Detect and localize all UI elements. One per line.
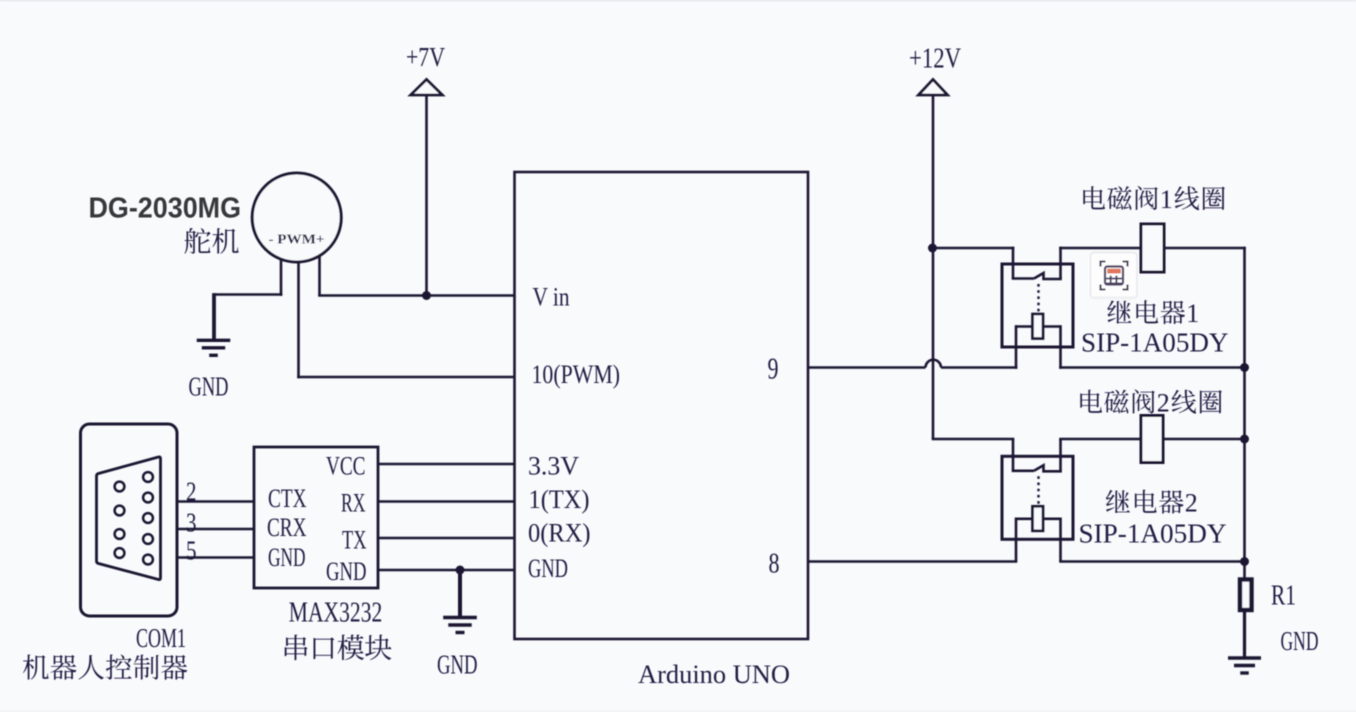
wire +12V tap to K1 switch [932,247,1015,250]
relay K2 switch blade [1034,465,1062,471]
svg-text:CRX: CRX [267,513,307,542]
svg-text:3: 3 [186,508,197,538]
svg-text:1: 1 [1186,299,1199,328]
label 继电器2 (relay 2) [1106,489,1198,518]
relay K2 switch left terminal [1012,439,1015,471]
svg-text:GND: GND [189,372,229,402]
svg-text:2: 2 [1157,389,1170,418]
connector J1 pin holes [115,472,153,564]
svg-text:VCC: VCC [326,452,366,481]
module U2 MAX3232 box [254,447,378,588]
wire VCC to 3.3V [378,463,515,466]
label 机器人控制器 (robot controller) [23,654,187,679]
valve coil 2 rectangle [1141,416,1163,463]
wire servo minus to ground [213,293,283,296]
wire +12V vertical rail [932,95,935,439]
svg-text:GND: GND [1281,626,1319,656]
relay K1 switch left contact [1012,277,1034,280]
svg-text:TX: TX [342,526,367,555]
svg-text:V in: V in [533,283,570,312]
svg-text:GND: GND [437,650,478,680]
wire valve coil 1 to right rail [1163,247,1246,250]
relay K1 coil right lead [1043,325,1061,328]
relay K2 coil- terminal [1015,518,1018,562]
relay K1 box [1002,264,1073,347]
svg-text:R1: R1 [1271,581,1296,612]
valve coil 1 rectangle [1141,224,1164,272]
node right rail junction 2 [1240,435,1249,444]
node right rail junction 1 [1240,363,1249,372]
label 电磁阀1线圈 (solenoid valve 1 coil) [1083,185,1225,214]
label 继电器1 (relay 1) [1107,299,1199,328]
top edge artifact line [0,0,1356,2]
svg-text:1(TX): 1(TX) [529,485,590,514]
wire ground drop (module) [458,570,462,616]
svg-text:1: 1 [1160,185,1173,214]
wire Vin net horizontal [318,294,515,297]
servo M1 DG-2030MG body circle [252,173,341,262]
svg-text:+7V: +7V [406,42,445,72]
wire PWM to Arduino 10(PWM) [297,376,515,379]
wire DB9 pin3 to CRX [177,528,255,531]
wire TX to 0(RX) [378,537,515,540]
relay K2 box [1002,456,1073,539]
svg-text:- PWM+: - PWM+ [269,232,325,247]
wire DB9 pin2 to CTX [177,500,255,503]
label 电磁阀2线圈 (solenoid valve 2 coil) [1080,389,1222,418]
svg-text:3.3V: 3.3V [528,452,579,481]
wire hop over +12V line [926,360,942,368]
power +12V arrow symbol [919,80,948,96]
svg-text:2: 2 [1185,489,1198,518]
relay K1 switch left terminal [1012,247,1015,279]
relay K1 switch right terminal [1059,247,1062,279]
wire RX to 1(TX) [378,500,515,503]
svg-text:GND: GND [326,557,367,586]
ground symbol (module) [443,618,477,633]
wire right rail vertical [1243,247,1246,581]
relay K1 coil+ terminal [1059,325,1062,369]
ground symbol (servo) [197,340,231,355]
wire servo minus lead [280,259,283,296]
wire pin9 to relay K1 [807,366,926,369]
svg-text:RX: RX [341,489,366,518]
node GND junction dot [456,566,465,575]
bottom edge artifact line [0,710,1356,712]
wire +12V corner to K2 switch [933,438,1014,439]
wire DB9 pin5 to GND [177,556,255,559]
relay K2 switch left contact [1012,469,1034,472]
wire R1 to ground [1243,610,1246,657]
relay K1 coil- terminal [1015,325,1018,369]
relay K1 coil rectangle [1033,314,1044,339]
power +7V arrow symbol [411,80,443,96]
label 串口模块 (serial module) [285,635,392,661]
relay K1 switch blade [1034,273,1062,279]
svg-text:CTX: CTX [268,484,307,513]
relay K1 actuator dashed link [1037,284,1039,312]
connector J1 DB9 outer body [81,424,178,616]
svg-text:SIP-1A05DY: SIP-1A05DY [1081,328,1229,358]
wire K2 switch to valve coil 2 [1059,438,1142,441]
label 舵机 (servo) [184,228,238,254]
wire +7V vertical to Vin node [425,95,428,296]
relay K2 coil+ terminal [1059,518,1062,562]
relay K2 coil right lead [1043,517,1061,520]
node right rail junction 3 [1240,557,1249,566]
svg-text:SIP-1A05DY: SIP-1A05DY [1079,519,1227,549]
relay K2 actuator dashed link [1037,476,1039,504]
svg-text:Arduino UNO: Arduino UNO [638,660,790,689]
relay K2 coil rectangle [1033,506,1044,531]
screenshot tool icon card [1091,253,1138,300]
connector J1 D-shell [97,457,161,580]
resistor R1 [1240,580,1252,611]
relay K1 coil left lead [1016,325,1033,328]
ground symbol (right rail) [1228,658,1261,673]
wire valve coil 2 to right rail [1162,438,1246,441]
svg-text:+12V: +12V [909,44,961,75]
svg-text:COM1: COM1 [136,623,186,653]
node +12V junction dot [928,244,937,253]
mcu U1 Arduino UNO box [515,172,809,639]
wire servo plus lead [318,256,321,297]
wire servo PWM lead [297,262,300,378]
wire K2 coil+ to right rail [1059,560,1246,563]
svg-text:GND: GND [268,543,306,572]
wire pin8 to relay K2 [807,560,1017,563]
wire hop to K1 coil- [941,366,1017,369]
svg-text:9: 9 [768,351,779,386]
svg-text:0(RX): 0(RX) [528,519,591,548]
svg-text:MAX3232: MAX3232 [289,598,383,629]
wire ground drop (servo) [212,293,216,339]
svg-text:GND: GND [528,554,568,583]
svg-text:DG-2030MG: DG-2030MG [89,193,242,225]
node Vin junction dot [422,291,431,300]
svg-text:10(PWM): 10(PWM) [532,360,621,389]
wire K1 coil+ to right rail [1059,366,1246,369]
relay K2 coil left lead [1016,517,1033,520]
svg-text:5: 5 [186,536,197,566]
relay K2 switch right terminal [1059,439,1062,471]
wire GND to Arduino GND [378,569,515,572]
svg-text:8: 8 [769,549,780,580]
wire K1 switch to valve coil 1 [1059,247,1142,250]
